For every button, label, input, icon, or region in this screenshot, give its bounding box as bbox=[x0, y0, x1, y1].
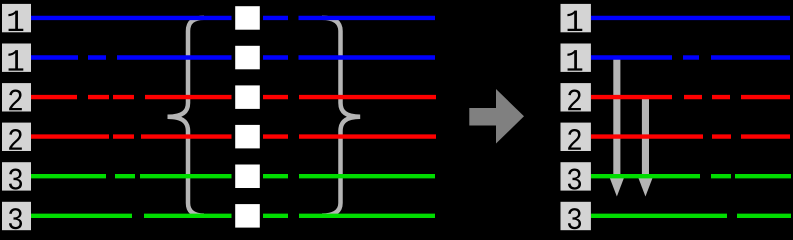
row 2 blue lines bbox=[31, 55, 790, 59]
white square row 6 bbox=[235, 204, 260, 228]
row 6 green lines bbox=[31, 214, 791, 218]
white square row 5 bbox=[235, 165, 260, 189]
row 5 green lines bbox=[31, 174, 791, 178]
big right arrow bbox=[469, 89, 524, 144]
left label boxes bbox=[2, 4, 31, 230]
white square row 3 bbox=[235, 85, 260, 109]
row 4 red lines bbox=[31, 134, 790, 138]
right curly brace bbox=[322, 18, 360, 216]
right labels 1,1,2,2,3,3 bbox=[567, 11, 582, 230]
white square row 2 bbox=[235, 46, 260, 70]
left labels 1,1,2,2,3,3 bbox=[8, 11, 23, 230]
white square row 4 bbox=[235, 125, 260, 148]
white square row 1 bbox=[235, 6, 260, 30]
row 1 blue lines bbox=[31, 16, 790, 20]
down arrow 2 bbox=[638, 97, 653, 197]
row 3 red lines bbox=[31, 95, 790, 99]
left curly brace bbox=[168, 18, 205, 216]
right label boxes bbox=[561, 4, 591, 230]
down arrow 1 bbox=[610, 56, 625, 197]
